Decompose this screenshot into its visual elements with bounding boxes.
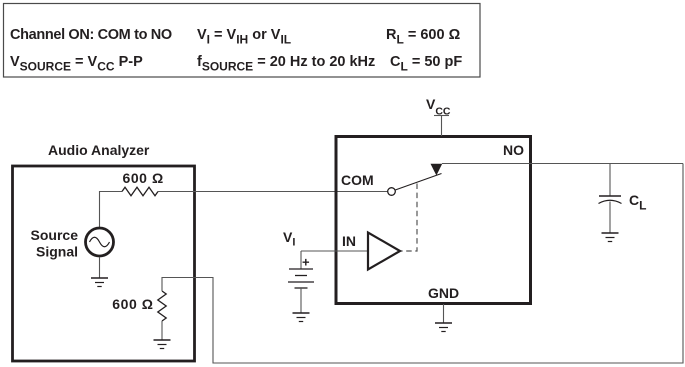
ground: battery: [293, 313, 310, 322]
wire: battery to ground: [300, 288, 302, 313]
sine wave mark: [90, 237, 110, 247]
dashed control line: [401, 184, 417, 252]
battery V2 plates: [288, 269, 314, 288]
switch throw (diagonal): [395, 174, 441, 191]
svg-text:VI: VI: [283, 229, 295, 249]
wire: VCC pin: [441, 116, 443, 137]
svg-text:600 Ω: 600 Ω: [123, 170, 164, 186]
DUT box U1: [336, 137, 531, 304]
svg-text:Source: Source: [31, 227, 79, 243]
svg-text:Channel ON: COM to NO: Channel ON: COM to NO: [10, 27, 172, 43]
svg-text:GND: GND: [428, 285, 459, 301]
wire: CL to ground: [609, 202, 611, 234]
source signal generator V1: [86, 228, 114, 256]
ground: under source: [91, 278, 108, 287]
conditions box: [4, 4, 481, 78]
svg-text:CL = 50 pF: CL = 50 pF: [390, 54, 462, 74]
wire: NO net: [442, 163, 683, 165]
ground: CL: [602, 233, 619, 242]
wire: source to R1: [100, 192, 123, 228]
wire: R1 to COM: [158, 191, 388, 193]
ground: GND pin: [435, 323, 452, 332]
svg-text:IN: IN: [342, 233, 356, 249]
svg-text:VI = VIH or VIL: VI = VIH or VIL: [197, 27, 291, 47]
wire: CL tap: [609, 164, 611, 197]
svg-text:COM: COM: [341, 172, 374, 188]
svg-text:Audio Analyzer: Audio Analyzer: [48, 142, 150, 158]
svg-text:fSOURCE = 20 Hz to 20 kHz: fSOURCE = 20 Hz to 20 kHz: [197, 54, 375, 74]
svg-text:CL: CL: [629, 192, 646, 213]
switch pole circle: [388, 188, 396, 196]
power bar VCC: [434, 115, 449, 117]
wire: source to ground: [99, 257, 101, 278]
svg-text:VCC: VCC: [426, 96, 451, 118]
svg-text:RL = 600 Ω: RL = 600 Ω: [386, 27, 461, 47]
capacitor CL top plate: [599, 195, 621, 197]
resistor R2 600 ohm (vertical): [158, 291, 166, 321]
wire: return net to R2 top: [162, 164, 683, 364]
wire: VI to IN buffer: [301, 250, 368, 252]
capacitor CL bottom plate (curved): [599, 200, 622, 203]
svg-text:+: +: [302, 255, 310, 270]
audio analyzer box: [13, 166, 195, 361]
resistor R1 600 ohm (horizontal): [122, 187, 158, 195]
svg-text:NO: NO: [503, 142, 524, 158]
switch arrowhead: [431, 164, 443, 176]
wire: battery top: [300, 251, 302, 269]
wire: R2 to ground: [161, 321, 163, 340]
svg-text:Signal: Signal: [36, 244, 78, 260]
svg-text:600 Ω: 600 Ω: [112, 296, 153, 312]
svg-text:VSOURCE = VCC P-P: VSOURCE = VCC P-P: [10, 54, 143, 74]
wire: GND pin: [443, 304, 445, 323]
ground: under R2: [154, 340, 171, 349]
buffer U1A: [368, 233, 400, 270]
